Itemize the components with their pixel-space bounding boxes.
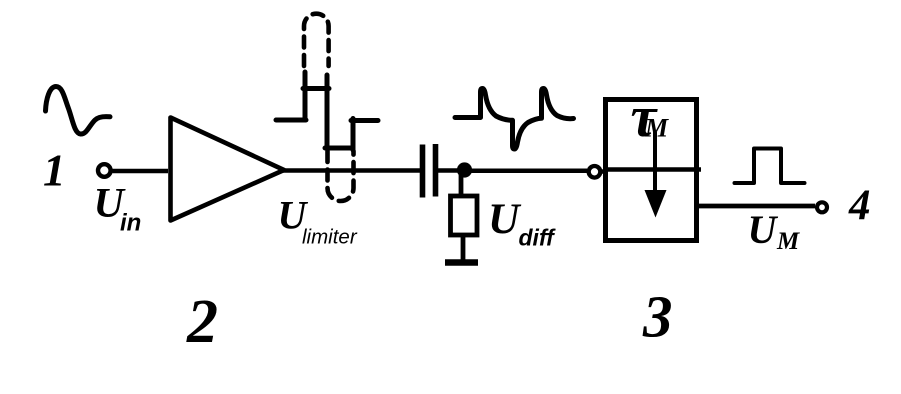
- clipping window bottom dashed capsule: [328, 151, 354, 201]
- monostable block 3: [606, 100, 697, 241]
- terminal circle monostable input: [589, 166, 601, 178]
- resistor R: [451, 196, 478, 235]
- wire capacitor to node: [438, 168, 460, 173]
- svg-text:2: 2: [186, 288, 218, 356]
- svg-text:3: 3: [642, 284, 673, 350]
- svg-text:diff: diff: [519, 225, 557, 251]
- svg-text:limiter: limiter: [302, 226, 358, 249]
- wire circle to block: [601, 169, 606, 174]
- wire resistor to ground: [461, 235, 466, 261]
- wire terminal 1 to limiter input: [113, 169, 169, 174]
- amplifier limiter triangle 2: [171, 118, 285, 221]
- terminal 4: [817, 202, 827, 212]
- wire node to monostable input: [469, 169, 587, 174]
- svg-text:in: in: [120, 210, 141, 237]
- svg-text:U: U: [748, 207, 779, 252]
- waveform output pulse: [735, 149, 805, 184]
- waveform differentiated spikes: [455, 89, 574, 150]
- capacitor right plate: [433, 144, 439, 197]
- arrow tau_M duration: [653, 132, 657, 196]
- clipping window top dashed capsule: [304, 14, 329, 66]
- wire block output to terminal 4: [698, 204, 815, 209]
- terminal 1: [98, 164, 111, 177]
- svg-text:1: 1: [43, 146, 66, 196]
- svg-text:U: U: [488, 195, 522, 243]
- waveform sine input: [46, 87, 111, 135]
- ground bar: [445, 259, 478, 266]
- svg-text:4: 4: [848, 182, 871, 229]
- waveform limiter square wave: [276, 72, 378, 150]
- node junction dot: [457, 162, 472, 177]
- capacitor left plate: [420, 145, 426, 198]
- svg-text:M: M: [776, 228, 800, 255]
- wire node down to resistor: [459, 171, 464, 196]
- block divider line: [603, 167, 701, 172]
- wire limiter output to capacitor: [282, 168, 420, 173]
